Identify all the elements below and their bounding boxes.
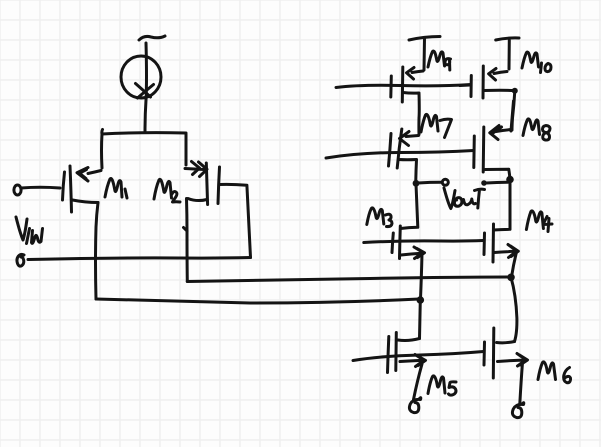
node Vout open terminal circle <box>442 179 448 185</box>
wire bias line 2 (M7 M8 gates) <box>326 151 474 159</box>
wire node A down to M5 drain <box>418 300 422 339</box>
label M5 <box>428 376 445 394</box>
wire M2 gate to right and down <box>219 184 250 257</box>
label M6 <box>538 362 556 380</box>
label VIN subscript IN <box>27 229 43 244</box>
transistor M8 source arrow <box>490 126 512 140</box>
label M1 <box>105 178 122 197</box>
label VIN V <box>16 217 27 240</box>
transistor M9 gate bar <box>389 76 393 97</box>
label M2 <box>154 179 172 199</box>
node Vin+ input terminal circle <box>14 185 21 195</box>
wire bias line 4 (M5 M6 gates) <box>353 352 484 361</box>
wire right drop to M2 source <box>185 134 188 165</box>
wire diff pair top bar <box>102 130 186 135</box>
transistor M4 source arrow <box>495 245 519 258</box>
transistor M2 channel bar <box>206 163 207 205</box>
label M3 <box>367 208 384 225</box>
transistor M2 source arrow (double chevron) <box>185 162 207 177</box>
transistor M5 gate bar <box>388 337 389 373</box>
transistor M10 drain lead <box>484 89 515 92</box>
node Vout junction dot mid right <box>481 180 487 186</box>
label M9 subscript 9 <box>445 59 451 70</box>
transistor M9 channel bar <box>401 67 405 102</box>
wire left drop to M1 source <box>100 134 104 168</box>
node B junction dot <box>507 274 515 282</box>
label M9 <box>428 51 445 67</box>
transistor M8 channel bar <box>482 127 486 172</box>
label M8 <box>523 119 540 136</box>
wire M3 source down to node A <box>421 254 423 300</box>
label M4 subscript 4 <box>543 217 552 232</box>
ground symbol M5 <box>409 398 420 413</box>
wire M2 drain small tick <box>184 228 188 232</box>
wire current source vertical <box>145 43 147 131</box>
transistor M2 drain lead <box>188 199 207 201</box>
transistor M10 gate bar <box>470 76 473 97</box>
wire Vin- horizontal input wire <box>28 258 251 260</box>
transistor M5 source arrow <box>400 355 426 367</box>
transistor M4 drain lead <box>494 184 511 231</box>
label M3 subscript 3 <box>386 214 393 226</box>
transistor M5 drain lead <box>398 339 420 341</box>
current source I1 arrow <box>136 84 154 99</box>
label Vout <box>444 188 455 209</box>
transistor M7 channel bar <box>397 129 402 168</box>
transistor M5 channel bar <box>394 333 398 371</box>
transistor M1 drain lead <box>73 200 99 203</box>
transistor M9 VDD cap <box>409 37 440 71</box>
transistor M6 drain lead <box>497 342 515 343</box>
label M6 subscript 6 <box>564 368 571 383</box>
transistor M6 channel bar <box>492 328 496 378</box>
transistor M1 gate bar <box>63 172 65 200</box>
wire M4 source down to node B <box>512 252 517 277</box>
transistor M8 gate bar <box>472 136 476 168</box>
transistor M4 channel bar <box>492 224 496 262</box>
label M4 <box>526 211 543 230</box>
transistor M1 channel bar <box>70 166 72 212</box>
node A junction dot <box>417 296 425 304</box>
transistor M8 drain lead <box>485 169 510 179</box>
transistor M7 gate bar <box>389 134 392 167</box>
node Vout junction dot left <box>413 180 420 187</box>
label M10 <box>522 52 539 68</box>
transistor M7 source arrow <box>400 132 419 146</box>
wire bias line 1 (M9 M10 gates) <box>336 85 471 88</box>
label M1 subscript 1 <box>125 189 127 198</box>
label M5 subscript 5 <box>449 382 457 395</box>
node dot M10 drain <box>512 88 518 94</box>
node Vin- input terminal circle <box>17 254 24 266</box>
transistor M6 source arrow <box>498 354 528 367</box>
label M10 subscript 10 <box>541 63 552 73</box>
transistor M7 drain lead <box>399 160 417 181</box>
transistor M3 gate bar <box>392 233 393 253</box>
transistor M3 channel bar <box>398 226 402 259</box>
transistor M6 gate bar <box>483 342 487 365</box>
wire node B down to M6 drain <box>511 277 517 341</box>
node junction blob M8 drain / M4 drain <box>506 176 514 184</box>
transistor M9 source arrow <box>407 68 424 80</box>
label M7 subscript 7 <box>440 119 452 137</box>
wire M10 drain down to M8 source <box>511 91 515 131</box>
wire M2 drain across to M6 drain node <box>187 277 509 282</box>
wire Vout left segment <box>418 181 442 185</box>
wire M6 source down to ground <box>520 363 523 405</box>
wire M1 drain down <box>96 203 99 300</box>
transistor M2 gate bar <box>218 167 220 204</box>
ground symbol M6 <box>512 403 523 418</box>
transistor M10 source arrow <box>489 69 507 81</box>
wire M2 drain down <box>185 199 189 282</box>
label M2 subscript 2 <box>172 192 180 202</box>
current source I1 top terminal squiggle <box>139 36 165 40</box>
transistor M3 drain lead <box>401 184 418 229</box>
transistor M4 gate bar <box>483 233 487 255</box>
wire Vout right segment <box>486 181 508 185</box>
transistor M3 source arrow <box>401 247 425 259</box>
label M7 <box>421 114 438 132</box>
current source I1 circle <box>121 56 161 98</box>
label M8 subscript 8 <box>543 126 551 141</box>
transistor M10 VDD cap <box>496 38 519 69</box>
transistor M10 channel bar <box>482 66 485 98</box>
wire M10 gate stub <box>460 84 470 88</box>
transistor M1 source arrow <box>77 168 101 182</box>
wire M5 source down to ground <box>414 364 423 400</box>
wire bias line 3 (M3 M4 gates) <box>364 241 483 243</box>
transistor M9 drain lead <box>403 93 419 135</box>
wire M1 drain across to M5 drain node <box>96 299 419 303</box>
wire input to M1 gate <box>21 186 60 190</box>
